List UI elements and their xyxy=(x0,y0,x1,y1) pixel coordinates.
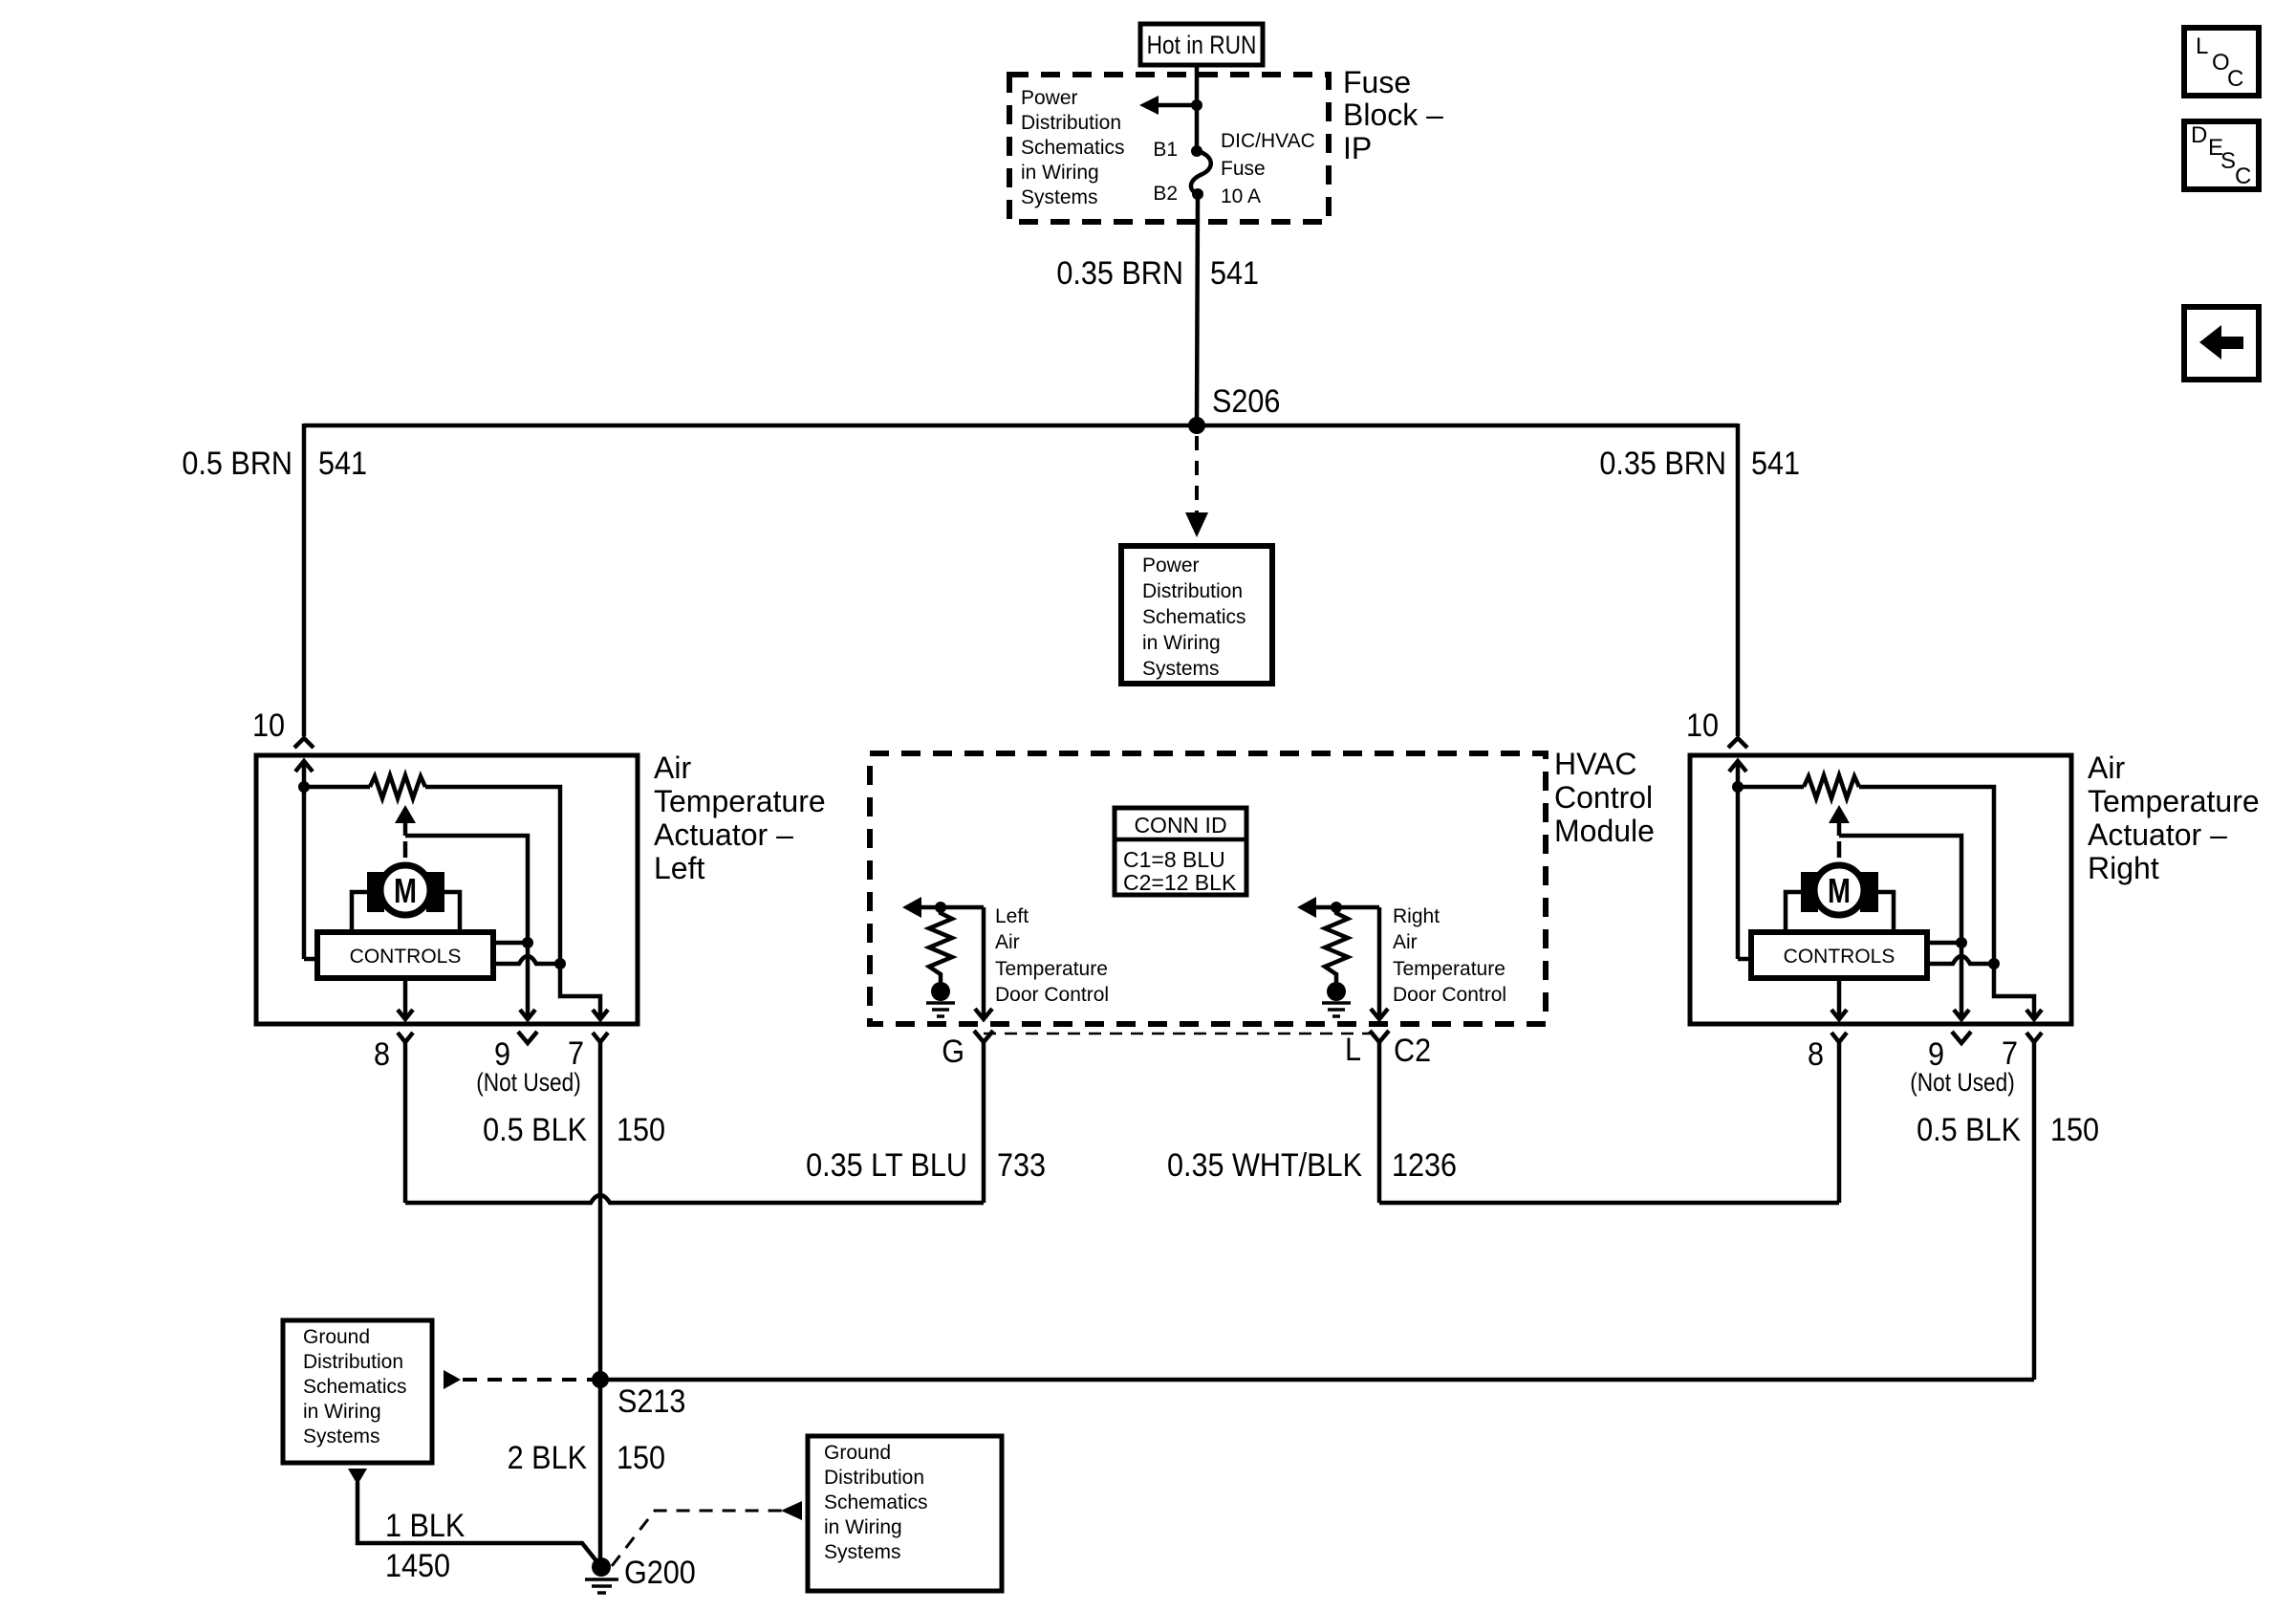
CONTROLS box xyxy=(317,932,493,978)
pin 9 wire to bottom xyxy=(526,943,531,1019)
pin 9 female terminal (right actuator) xyxy=(1952,1032,1971,1043)
wiper arrow xyxy=(395,805,416,823)
CONN ID table xyxy=(1115,808,1246,895)
wire bus 541 horizontal xyxy=(304,424,1738,428)
air temperature actuator right box xyxy=(1690,755,2071,1024)
pin 9 female terminal xyxy=(518,1032,537,1043)
label 0.35 BRN 541 xyxy=(1056,255,1259,292)
junction dot left door xyxy=(935,902,946,913)
wire CONTROLS left (right actuator) xyxy=(1738,957,1751,962)
svg-text:S213: S213 xyxy=(617,1383,685,1420)
svg-text:B2: B2 xyxy=(1153,183,1178,205)
svg-text:Systems: Systems xyxy=(824,1541,901,1563)
svg-text:Distribution: Distribution xyxy=(303,1351,403,1373)
label Power Distribution Schematics (fuse block) xyxy=(1021,87,1125,208)
wire pin10 to junction xyxy=(302,761,307,959)
svg-text:M: M xyxy=(1828,871,1851,910)
junction dot right leg xyxy=(554,958,566,969)
svg-text:7: 7 xyxy=(2002,1035,2018,1072)
svg-text:Schematics: Schematics xyxy=(1021,137,1125,159)
svg-text:C: C xyxy=(2227,66,2243,92)
fuse DIC/HVAC terminal B1 xyxy=(1191,145,1202,157)
pin L male terminal arrow xyxy=(1371,1009,1388,1019)
svg-text:Distribution: Distribution xyxy=(824,1467,924,1489)
dashed wire S206 to power distribution box xyxy=(1195,436,1199,516)
svg-text:Left: Left xyxy=(654,851,704,885)
svg-text:Block –: Block – xyxy=(1343,98,1443,132)
svg-text:0.35 LT BLU: 0.35 LT BLU xyxy=(806,1147,967,1184)
wire right branch 0.35 BRN down to right actuator xyxy=(1736,424,1741,736)
wire junction to resistor right xyxy=(1738,785,1804,790)
svg-text:Air: Air xyxy=(995,931,1020,953)
pin 7 male terminal arrow (right actuator) xyxy=(2026,1010,2042,1019)
svg-text:7: 7 xyxy=(568,1035,584,1072)
label Fuse Block IP xyxy=(1343,65,1443,165)
svg-text:Distribution: Distribution xyxy=(1021,112,1121,134)
wire from Hot in RUN into fuse block xyxy=(1195,65,1200,151)
svg-text:in Wiring: in Wiring xyxy=(1142,632,1221,654)
svg-text:Fuse: Fuse xyxy=(1221,158,1266,180)
wire bus pin L to pin8 right xyxy=(1379,1201,1839,1206)
pin 10 female terminal right xyxy=(1728,738,1747,748)
svg-text:Systems: Systems xyxy=(303,1426,380,1448)
svg-text:in Wiring: in Wiring xyxy=(303,1401,381,1423)
svg-text:CONTROLS: CONTROLS xyxy=(1784,946,1895,968)
svg-text:1 BLK: 1 BLK xyxy=(385,1508,466,1544)
wire pin 8 down (right actuator) xyxy=(1837,1042,1842,1203)
svg-text:Air: Air xyxy=(2088,751,2125,785)
svg-text:0.5 BLK: 0.5 BLK xyxy=(483,1112,587,1148)
wire pin L down xyxy=(1377,1042,1382,1203)
svg-text:Schematics: Schematics xyxy=(303,1376,407,1398)
wire pin 8 down xyxy=(403,1042,408,1203)
wire S213 to right pin 7 xyxy=(600,1378,2034,1382)
resistor right door control xyxy=(1325,907,1348,983)
wire pin G down xyxy=(982,1042,986,1203)
node Ground Distribution Schematics box right xyxy=(808,1436,1002,1591)
svg-text:Air: Air xyxy=(654,751,691,785)
wire bus pin8 left to pin G with hop over pin7 wire xyxy=(405,1195,984,1203)
motor brush wires right xyxy=(1786,892,1801,932)
svg-text:541: 541 xyxy=(318,446,367,482)
svg-text:IP: IP xyxy=(1343,131,1372,165)
junction dot pin 9 leg right xyxy=(1956,937,1967,948)
svg-text:S206: S206 xyxy=(1212,383,1280,420)
node Hot in RUN xyxy=(1140,24,1263,65)
svg-text:CONN ID: CONN ID xyxy=(1134,813,1226,838)
resistor left door control xyxy=(929,907,952,983)
svg-text:Distribution: Distribution xyxy=(1142,580,1243,602)
svg-text:Power: Power xyxy=(1142,555,1200,577)
svg-text:S: S xyxy=(2220,148,2236,174)
SECTION: right actuator xyxy=(1686,708,2260,1380)
svg-text:150: 150 xyxy=(617,1112,665,1148)
pin G female terminal xyxy=(974,1031,993,1042)
svg-text:0.35 BRN: 0.35 BRN xyxy=(1056,255,1183,292)
svg-text:1450: 1450 xyxy=(385,1548,450,1584)
svg-text:8: 8 xyxy=(1808,1036,1824,1073)
ground G200 xyxy=(592,1557,611,1577)
wire wiper to pin 9 leg right xyxy=(1839,836,1961,943)
junction dot pin 9 leg xyxy=(522,937,533,948)
svg-text:C2=12 BLK: C2=12 BLK xyxy=(1123,870,1237,895)
svg-text:Fuse: Fuse xyxy=(1343,65,1411,99)
svg-text:541: 541 xyxy=(1210,255,1259,292)
wire CONTROLS left xyxy=(304,957,317,962)
wire wiper to pin 9 leg xyxy=(405,836,528,943)
svg-text:Temperature: Temperature xyxy=(654,784,826,818)
svg-text:Air: Air xyxy=(1393,931,1418,953)
svg-text:Temperature: Temperature xyxy=(2088,784,2260,818)
svg-text:Right: Right xyxy=(2088,851,2159,885)
connector C2 dashed line xyxy=(984,1033,1379,1035)
wire right leg to pin 7 xyxy=(560,964,600,1019)
svg-text:L: L xyxy=(1345,1032,1361,1068)
svg-text:HVAC: HVAC xyxy=(1554,747,1637,781)
label HVAC Control Module xyxy=(1554,747,1655,848)
splice S206 xyxy=(1188,417,1205,434)
dashed wire G200 to right ground box xyxy=(612,1511,782,1566)
pin 7 male terminal arrow xyxy=(593,1010,608,1019)
icon back arrow xyxy=(2184,307,2259,380)
svg-text:in Wiring: in Wiring xyxy=(1021,162,1099,184)
icon DESC xyxy=(2184,121,2259,189)
pin 7 female terminal xyxy=(593,1033,608,1042)
wire 1 BLK 1450 xyxy=(357,1482,601,1567)
junction dot xyxy=(298,781,310,793)
svg-text:Door Control: Door Control xyxy=(1393,984,1506,1006)
svg-text:Schematics: Schematics xyxy=(824,1491,928,1513)
svg-text:Systems: Systems xyxy=(1021,186,1098,208)
svg-text:CONTROLS: CONTROLS xyxy=(350,946,462,968)
arrow from left ground box down xyxy=(348,1469,367,1485)
svg-text:Actuator –: Actuator – xyxy=(654,817,793,852)
left door control arrow xyxy=(902,897,921,918)
ground left door control xyxy=(931,982,950,1001)
HVAC control module dashed box xyxy=(870,753,1546,1024)
svg-text:C1=8 BLU: C1=8 BLU xyxy=(1123,847,1225,872)
wire CONTROLS right top xyxy=(493,941,528,946)
svg-text:Ground: Ground xyxy=(303,1326,370,1348)
wire pin10 to junction right xyxy=(1736,761,1741,959)
svg-text:10 A: 10 A xyxy=(1221,185,1261,207)
pin 9 male terminal arrow (right actuator) xyxy=(1954,1010,1969,1019)
pin 8 male terminal arrow xyxy=(398,1010,413,1019)
fuse DIC/HVAC element xyxy=(1191,151,1211,194)
wire left door to pin G xyxy=(982,907,986,1019)
ground right door control xyxy=(1327,982,1346,1001)
pin L female terminal xyxy=(1370,1031,1389,1042)
pin 9 wire to bottom (right actuator) xyxy=(1960,943,1964,1019)
icon LOC xyxy=(2184,28,2259,96)
svg-text:in Wiring: in Wiring xyxy=(824,1516,902,1538)
svg-text:Door Control: Door Control xyxy=(995,984,1109,1006)
pin 10 female terminal xyxy=(294,738,314,748)
pin 10 male terminal arrow right xyxy=(1729,761,1746,772)
fuse block IP dashed box xyxy=(1009,75,1329,222)
pin 8 female terminal (right actuator) xyxy=(1831,1033,1847,1042)
svg-text:(Not Used): (Not Used) xyxy=(1910,1068,2015,1097)
label Right Air Temperature Door Control xyxy=(1393,905,1506,1006)
svg-text:8: 8 xyxy=(374,1036,390,1073)
svg-text:10: 10 xyxy=(1686,708,1719,744)
dashed wire S213 to ground distribution box xyxy=(463,1378,598,1382)
wire branch to power distribution with arrow xyxy=(1157,103,1197,108)
wire junction to resistor xyxy=(304,785,370,790)
wire CONTROLS right bottom with hop xyxy=(493,956,560,964)
pin 7 female terminal (right actuator) xyxy=(2026,1033,2042,1042)
svg-text:0.35 BRN: 0.35 BRN xyxy=(1599,446,1726,482)
svg-text:150: 150 xyxy=(2050,1112,2099,1148)
splice S213 xyxy=(592,1371,609,1388)
dashed link wiper to motor xyxy=(403,841,408,858)
svg-text:0.5 BLK: 0.5 BLK xyxy=(1917,1112,2021,1148)
air temperature actuator left box xyxy=(256,755,638,1024)
label 0.35 BRN 541 right xyxy=(1599,446,1800,482)
label Left Air Temperature Door Control xyxy=(995,905,1109,1006)
svg-text:Temperature: Temperature xyxy=(1393,958,1505,980)
junction dot right leg (right actuator) xyxy=(1988,958,2000,969)
svg-text:B1: B1 xyxy=(1153,139,1178,161)
fuse DIC/HVAC terminal B2 xyxy=(1192,188,1203,200)
svg-text:D: D xyxy=(2191,122,2207,148)
junction dot right actuator xyxy=(1732,781,1744,793)
node Ground Distribution Schematics box left xyxy=(283,1320,432,1463)
resistor element xyxy=(370,775,425,798)
pin G male terminal arrow xyxy=(975,1009,992,1019)
svg-text:L: L xyxy=(2196,33,2208,59)
wire left branch 0.5 BRN down to left actuator xyxy=(302,424,307,736)
svg-text:541: 541 xyxy=(1751,446,1800,482)
pin 8 male terminal arrow (right actuator) xyxy=(1831,1010,1847,1019)
wire CONTROLS right bottom with hop (right actuator) xyxy=(1927,956,1994,964)
motor brush wires xyxy=(352,892,367,932)
svg-text:Systems: Systems xyxy=(1142,658,1220,680)
pin 10 male terminal arrow xyxy=(295,761,313,772)
svg-text:Right: Right xyxy=(1393,905,1440,927)
svg-text:G200: G200 xyxy=(624,1555,696,1591)
svg-text:9: 9 xyxy=(494,1036,510,1073)
wire right leg to pin 7 (right actuator) xyxy=(1994,964,2034,1019)
pin 8 female terminal xyxy=(398,1033,413,1042)
svg-text:(Not Used): (Not Used) xyxy=(476,1068,581,1097)
svg-text:733: 733 xyxy=(997,1147,1046,1184)
svg-text:0.5 BRN: 0.5 BRN xyxy=(182,446,292,482)
SECTION: left actuator xyxy=(252,708,826,1380)
svg-text:M: M xyxy=(394,871,417,910)
svg-text:C: C xyxy=(2235,163,2251,189)
svg-text:DIC/HVAC: DIC/HVAC xyxy=(1221,130,1315,152)
wire right door to pin L xyxy=(1377,907,1382,1019)
CONTROLS box right xyxy=(1751,932,1927,978)
svg-text:0.35 WHT/BLK: 0.35 WHT/BLK xyxy=(1167,1147,1362,1184)
wire pin 7 down to S213 line (right actuator) xyxy=(2032,1042,2037,1380)
svg-text:2 BLK: 2 BLK xyxy=(508,1440,588,1476)
motor M xyxy=(367,872,384,912)
svg-text:G: G xyxy=(942,1034,964,1070)
label DIC/HVAC Fuse 10 A xyxy=(1221,130,1315,207)
svg-text:9: 9 xyxy=(1928,1036,1944,1073)
svg-text:10: 10 xyxy=(252,708,285,744)
svg-text:Ground: Ground xyxy=(824,1442,891,1464)
wire CONTROLS to pin 8 xyxy=(403,978,408,1019)
svg-text:Actuator –: Actuator – xyxy=(2088,817,2227,852)
label 0.5 BRN 541 left xyxy=(182,446,367,482)
junction at branch xyxy=(1191,99,1202,111)
junction dot right door xyxy=(1331,902,1342,913)
wire CONTROLS to pin 8 (right actuator) xyxy=(1837,978,1842,1019)
svg-text:C2: C2 xyxy=(1394,1033,1431,1069)
node Power Distribution Schematics box xyxy=(1121,546,1272,684)
wire pin 7 down to S213 xyxy=(598,1042,603,1380)
pin 9 male terminal arrow xyxy=(520,1010,535,1019)
wire B2 to S206 0.35 BRN 541 xyxy=(1197,194,1198,425)
wire S213 to G200 xyxy=(598,1380,603,1567)
svg-text:Schematics: Schematics xyxy=(1142,606,1246,628)
svg-text:150: 150 xyxy=(617,1440,665,1476)
wire CONTROLS right top (right actuator) xyxy=(1927,941,1961,946)
motor M right actuator xyxy=(1801,872,1818,912)
svg-text:Control: Control xyxy=(1554,780,1653,815)
wiper arrow right actuator xyxy=(1829,805,1850,823)
svg-text:Hot in RUN: Hot in RUN xyxy=(1147,31,1257,59)
svg-text:Temperature: Temperature xyxy=(995,958,1108,980)
svg-text:Module: Module xyxy=(1554,814,1655,848)
wire resistor to right leg xyxy=(425,787,560,964)
svg-text:Left: Left xyxy=(995,905,1029,927)
dashed link wiper to motor right xyxy=(1837,841,1842,858)
wire resistor to right leg (right actuator) xyxy=(1859,787,1994,964)
svg-text:Power: Power xyxy=(1021,87,1078,109)
resistor element right actuator xyxy=(1804,775,1859,798)
svg-text:1236: 1236 xyxy=(1392,1147,1457,1184)
right door control arrow xyxy=(1297,897,1316,918)
